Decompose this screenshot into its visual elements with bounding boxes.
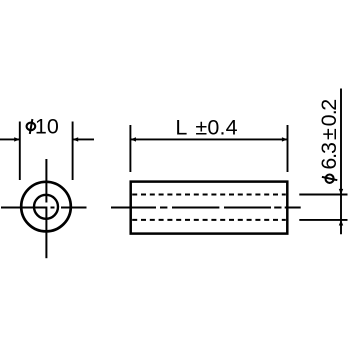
front view inner circle (bore) [34,195,58,219]
dimension phi6.3 vertical line with arrows [339,89,343,235]
side view rectangle [131,182,288,234]
svg-text:2: 2 [317,99,341,111]
svg-text:3: 3 [317,142,341,154]
dimension text phi6.3: diameter symbol (rotated) [322,175,337,183]
svg-text:10: 10 [35,114,59,138]
front view vertical centerline [45,159,47,258]
dimension L extension line right [287,125,289,172]
dimension text phi10: diameter symbol [27,119,36,134]
svg-text:±: ± [317,128,341,140]
svg-text:L ±0.4: L ±0.4 [175,116,237,140]
dimension L line with arrows [130,137,287,141]
side view hidden line top (bore) [132,194,286,196]
dimension L extension line left [129,125,131,172]
front view horizontal centerline [1,207,87,209]
dimension phi10 line left with arrow [0,137,20,141]
side view hidden line bottom (bore) [132,219,286,221]
dimension phi10 extension line right [72,122,74,181]
dimension text phi6.3: value 6.3+-0.2 (rotated) [317,99,341,170]
side view centerline [111,207,301,209]
front view outer circle (body OD) [21,182,71,232]
dimension phi10 extension line left [19,122,21,181]
dimension phi6.3 extension line top [299,194,347,196]
dimension phi10 line right with arrow [73,137,94,141]
dimension phi6.3 extension line bottom [299,219,347,221]
